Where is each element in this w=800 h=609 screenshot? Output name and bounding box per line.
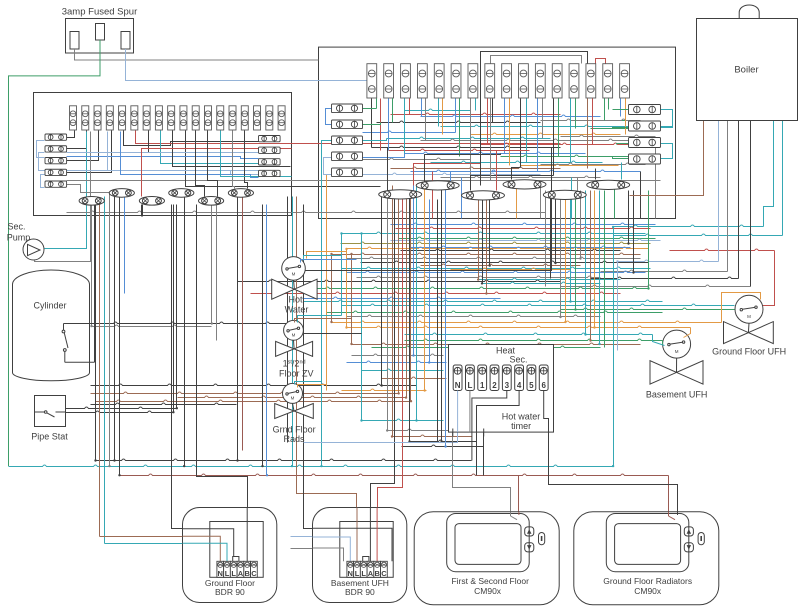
svg-text:B: B (244, 569, 250, 578)
wire mboval6 (497, 151, 530, 191)
hot water timer box (449, 345, 554, 433)
wire mesh row 7 (591, 128, 629, 130)
svg-text:M: M (292, 332, 296, 337)
wire mboval3 (425, 154, 501, 182)
wire mesh col 3 (388, 99, 390, 151)
row y460 black (96, 459, 472, 460)
col x575 green (575, 191, 577, 310)
col x633 black (633, 191, 635, 273)
wire mesh row 4 (599, 120, 629, 122)
svg-text:M: M (675, 349, 679, 354)
col x99 brown (99, 201, 101, 537)
wire timer exit left (453, 433, 517, 520)
svg-text:5: 5 (529, 381, 534, 390)
wire mesh row 5 (377, 121, 541, 122)
wire zv hook brown (295, 319, 352, 323)
col x211 grey (211, 205, 213, 324)
row y305 teal (342, 304, 735, 305)
left junction box (34, 93, 292, 216)
col x570 teal (570, 191, 572, 302)
wire jb18 (67, 157, 259, 159)
row y265 brown (421, 264, 581, 265)
col x485 brown (486, 200, 488, 294)
row y250 black (401, 249, 621, 250)
row y277 black (591, 277, 739, 278)
wire jb26 (233, 131, 235, 189)
svg-text:Hot water: Hot water (502, 412, 541, 422)
col x437 black (437, 200, 439, 443)
svg-text:N: N (218, 569, 223, 578)
wire basement hook teal (653, 335, 665, 346)
wire jb22 (142, 149, 292, 197)
col x216 grey (216, 205, 218, 341)
label Grnd Floor Rads (273, 425, 316, 445)
wire mboval10 (595, 169, 597, 180)
wire mesh col 2 (380, 99, 382, 151)
wire mesh drop 3 (540, 182, 542, 219)
wire mesh row 8 (363, 131, 456, 132)
wire jb13 (67, 185, 110, 193)
wire jb10 (161, 131, 259, 164)
col x648 green (648, 191, 650, 289)
row y400 brown (96, 400, 411, 401)
wire jb24 (208, 131, 218, 197)
col x109 grey (109, 193, 111, 467)
middle box left terminal column (332, 104, 363, 177)
col x481 black (482, 200, 484, 284)
wire mesh drop 0 (432, 172, 434, 219)
wire boiler black2 (738, 121, 740, 279)
col x603 green (604, 191, 606, 348)
wire mesh col 24 (558, 99, 560, 157)
row y312 green (327, 311, 663, 312)
wire jb17 (67, 152, 259, 154)
col x413 blue (413, 186, 415, 356)
wire gf bdr black2 (197, 205, 248, 562)
svg-text:6: 6 (541, 381, 546, 390)
col x266 blue (266, 205, 268, 476)
wire boiler brown (630, 121, 704, 196)
wire mesh row 21 (411, 170, 641, 171)
secondary pump (23, 239, 44, 260)
row y243 olive (341, 242, 651, 243)
wire mesh row 22 (363, 173, 541, 174)
col x409 black (409, 195, 411, 442)
svg-text:BDR 90: BDR 90 (345, 587, 375, 597)
wire jb14 (67, 180, 661, 182)
wire bs bdr lightblue (291, 537, 351, 562)
bs bdr inner wires (313, 508, 393, 562)
first and second floor CM90x box (414, 512, 559, 605)
basement BDR90 terminal strip (347, 557, 387, 579)
row y340 green (405, 339, 663, 340)
col x104 teal (104, 197, 106, 544)
gf bdr inner wires (183, 508, 248, 562)
left box oval terminals (79, 189, 253, 206)
wire mesh row 20 (391, 167, 561, 168)
wire mb red jumper (596, 59, 606, 64)
wire mesh col 31 (620, 99, 622, 117)
svg-text:B: B (374, 569, 380, 578)
svg-text:3amp Fused Spur: 3amp Fused Spur (62, 7, 138, 18)
col x114 black (114, 193, 116, 461)
row y226 teal boiler (614, 225, 764, 226)
heat terminal strip (453, 365, 548, 391)
svg-text:Basement UFH: Basement UFH (646, 390, 708, 400)
wire orange basement (684, 328, 691, 338)
col x331 brown (331, 255, 333, 323)
wire mesh col 12 (459, 99, 461, 157)
col x441 black (441, 186, 443, 442)
wire mesh col 27 (587, 99, 589, 169)
wire mbl6 (326, 109, 332, 125)
col x612 teal (613, 227, 615, 467)
svg-text:1: 1 (480, 381, 485, 390)
wire mbr2 (661, 144, 673, 159)
svg-text:Boiler: Boiler (734, 65, 758, 76)
wire mesh row 23 (441, 176, 601, 177)
cm2 entry wires (669, 512, 678, 520)
wire boiler teal2 (782, 121, 784, 236)
col x628 black (628, 191, 630, 244)
svg-text:2: 2 (492, 381, 497, 390)
wire mesh col 10 (442, 99, 444, 135)
row y293 red (251, 292, 621, 293)
wire mboval5 (471, 176, 554, 191)
wire mboval7 (512, 168, 521, 180)
row y334 teal (405, 333, 653, 334)
wire mesh col 6 (409, 99, 411, 115)
wire mesh drop 5 (614, 182, 616, 219)
wire mesh row 10 (387, 137, 551, 138)
svg-text:Cylinder: Cylinder (33, 301, 66, 311)
row y248 orange (347, 247, 649, 248)
wire mesh row 12 (481, 143, 629, 144)
wire mesh col 4 (392, 99, 394, 123)
first second floor zone valve (276, 320, 313, 356)
wire mesh col 7 (421, 99, 423, 117)
col x93 black (94, 201, 96, 363)
wire basement hook green (662, 341, 664, 345)
wire jb12 (41, 175, 45, 188)
row y277 grey (357, 276, 601, 277)
cylinder stat switch (62, 324, 94, 363)
svg-text:L: L (361, 569, 366, 578)
wire cm2 left (669, 476, 675, 520)
wire mesh col 15 (487, 99, 489, 145)
wire mesh col 8 (425, 99, 427, 141)
wire bs bdr grey (291, 549, 344, 562)
wire mesh col 5 (404, 99, 406, 154)
col x341 teal (341, 234, 343, 316)
col x321 teal (321, 253, 323, 467)
wire jb20 (121, 132, 259, 178)
wire mbl9 (324, 158, 332, 175)
label Heat Sec (496, 346, 528, 365)
col x599 teal (599, 191, 601, 345)
row y370 teal (362, 369, 444, 370)
wire mesh row 16 (501, 155, 629, 156)
col x287 black (287, 197, 289, 443)
col x391 brown (392, 186, 394, 437)
row y385 black (91, 384, 417, 385)
basement UFH valve (650, 330, 703, 384)
wire mesh col 9 (438, 99, 440, 127)
wire mbr4 (613, 128, 629, 129)
wire mesh row 19 (521, 164, 619, 165)
middle box right terminal column (629, 105, 661, 165)
wire mesh col 18 (509, 99, 511, 166)
wire mesh row 17 (363, 158, 471, 159)
col x381 black (381, 195, 383, 386)
row y404 black (91, 403, 237, 404)
wire bs bdr brown (297, 197, 357, 508)
row y262 black (361, 261, 649, 262)
wire mesh row 18 (431, 161, 603, 162)
wire hw hook teal (304, 256, 342, 261)
wire jb8 (136, 131, 561, 144)
svg-text:L: L (467, 381, 472, 390)
col x555 black (555, 191, 557, 263)
label 1st 2nd Floor ZV (279, 359, 314, 379)
wire boiler black (750, 121, 752, 287)
fused spur box (66, 19, 134, 54)
col x326 orange (326, 252, 328, 391)
svg-text:Sec.: Sec. (509, 355, 527, 365)
wire mesh row 2 (391, 113, 561, 114)
col x428 blue (429, 200, 431, 363)
wire timer exit right (483, 433, 485, 476)
col x91 grey (91, 201, 93, 327)
col x565 orange (565, 191, 567, 323)
svg-text:N: N (455, 381, 461, 390)
svg-text:3: 3 (505, 381, 510, 390)
svg-text:C: C (251, 569, 257, 578)
wire mesh col 20 (526, 99, 528, 163)
timer below box wires (472, 432, 477, 475)
wire mesh col 16 (492, 99, 494, 123)
col x291 teal (292, 197, 294, 467)
svg-text:L: L (225, 569, 230, 578)
row y253 brown (332, 253, 641, 254)
svg-text:First & Second Floor: First & Second Floor (451, 576, 529, 586)
wire mboval4 (451, 172, 538, 182)
svg-text:BDR 90: BDR 90 (215, 587, 245, 597)
col x140 black (141, 205, 143, 217)
wire jb21 (173, 131, 291, 167)
wire jb23 (196, 131, 205, 197)
row y465 teal (9, 465, 614, 466)
row y258 grey (347, 257, 641, 258)
wire jb2 (67, 131, 87, 149)
wire jb7 (124, 131, 259, 146)
wire mbl5 (363, 174, 381, 176)
row y279 teal (479, 278, 621, 279)
row y298 blue (303, 297, 501, 298)
label Hot water timer (502, 412, 541, 432)
svg-text:Ground Floor Radiators: Ground Floor Radiators (603, 576, 692, 586)
ground floor rads valve (275, 383, 314, 418)
col x550 black (550, 191, 552, 279)
wire bs bdr red top (378, 195, 403, 562)
col x361 teal (361, 234, 363, 421)
wire mbl4 (363, 154, 405, 158)
row y285 grey (561, 285, 751, 286)
row y234 teal boiler (614, 234, 783, 235)
left box top terminal row (70, 106, 286, 130)
cm1 entry wires (511, 512, 519, 520)
row y240 lightblue (391, 239, 661, 240)
row y441 black (410, 440, 477, 441)
wire rads hook teal (295, 382, 322, 385)
wire mesh row x1 (561, 135, 656, 136)
timer wire 3 inside (472, 391, 507, 433)
wire mesh row 13 (372, 146, 561, 147)
svg-text:A: A (238, 569, 244, 578)
row y268 orange (451, 268, 571, 269)
wire mbl3 (363, 139, 387, 141)
wire timer six (549, 433, 678, 515)
cylinder (13, 270, 90, 381)
row y392 brown (91, 392, 399, 393)
row y224 blue (391, 223, 656, 224)
row y411 black (66, 411, 174, 412)
col x489 black (489, 200, 491, 266)
svg-text:A: A (368, 569, 374, 578)
row y288 green (297, 287, 649, 288)
ground floor BDR90 terminal strip (217, 557, 257, 579)
wire mesh col 29 (604, 99, 606, 121)
row y378 brown (382, 377, 447, 378)
wire zv black out (304, 333, 362, 335)
row y436 brown (393, 435, 472, 436)
svg-text:Hot: Hot (288, 295, 303, 305)
wire gf bdr teal (105, 544, 227, 562)
ground floor UFH valve (724, 295, 774, 343)
wire jb4 (67, 131, 112, 173)
wire jb3 (67, 131, 99, 161)
wire mesh drop 7 (655, 141, 657, 219)
wire boiler grey (727, 121, 729, 272)
wire fused spur green (9, 40, 101, 466)
label First Second Floor CM90x (451, 576, 529, 596)
wire mesh col 17 (504, 99, 506, 154)
wire mboval2 (414, 163, 481, 191)
col x237 black (237, 197, 239, 461)
wire mbl1 (363, 108, 377, 110)
svg-text:N: N (348, 569, 353, 578)
wire mbr3 (613, 109, 629, 111)
middle box oval terminals (379, 180, 630, 200)
col x119 black (119, 193, 121, 476)
row y325 grey (92, 325, 212, 326)
wire mesh row x0 (541, 119, 641, 120)
row y355 grey (352, 354, 444, 355)
wire mesh col 13 (470, 99, 472, 178)
wire mesh row 6 (441, 125, 673, 126)
wire mbr1 (661, 110, 673, 128)
row y390 orange (342, 389, 427, 390)
wire mbl8 (327, 175, 332, 252)
col x241 red (242, 197, 244, 451)
wire mboval1 (387, 148, 389, 191)
wire mesh row 14 (389, 149, 530, 150)
col x585 teal (585, 191, 587, 335)
wire right red down (763, 251, 775, 306)
row y309 green (561, 308, 735, 309)
wire mesh row 3 (421, 115, 601, 116)
row y321 orange (332, 321, 722, 322)
wire mbr6 (613, 157, 629, 159)
row y270 grey (601, 270, 728, 271)
timer wire 4 inside (477, 391, 520, 433)
col x416 teal (416, 186, 418, 421)
wire timer n (304, 391, 458, 443)
wire jb6 (35, 132, 91, 262)
col x386 grey (387, 195, 389, 431)
svg-text:Sec.: Sec. (7, 222, 25, 232)
wire mesh row 1 (405, 109, 471, 110)
wire mb grey loop (491, 56, 582, 181)
basement UFH BDR90 box (313, 508, 407, 603)
col x124 blue (124, 193, 126, 294)
wire mesh row x2 (541, 163, 646, 164)
col x172 black (173, 205, 175, 413)
wire cm1 right (518, 476, 520, 515)
svg-text:1st/2nd: 1st/2nd (283, 359, 306, 369)
svg-text:Grnd Floor: Grnd Floor (273, 425, 316, 435)
middle box top terminal row (367, 64, 630, 98)
wire mesh col 25 (570, 99, 572, 163)
row y362 blue (347, 361, 447, 362)
wire mesh col 14 (475, 99, 477, 111)
wire jb9 (149, 131, 259, 153)
svg-text:CM90x: CM90x (474, 586, 502, 596)
wire orange gf ufh (722, 293, 761, 323)
label Sec Pump (7, 222, 31, 243)
svg-text:Ground Floor UFH: Ground Floor UFH (712, 347, 786, 357)
wire boiler lightblue (718, 121, 720, 262)
label Basement UFH BDR 90 (331, 578, 389, 597)
row y261 lightblue (618, 260, 719, 261)
col x477 brown (478, 200, 480, 280)
wire rads hook orange (298, 385, 327, 388)
wire gf bdr black (172, 205, 234, 562)
col x346 orange (346, 249, 348, 328)
wire jb5 (45, 132, 87, 249)
col x590 brown (590, 191, 592, 341)
wire jb15 (186, 131, 381, 187)
col x183 black (184, 197, 186, 467)
wire mesh col 11 (455, 99, 457, 133)
svg-text:L: L (231, 569, 236, 578)
col x176 black (176, 205, 178, 409)
wire mesh drop 6 (640, 172, 642, 219)
row y282 teal (483, 282, 601, 283)
svg-text:M: M (747, 314, 751, 319)
row y238 green (399, 237, 656, 238)
row y267 teal (342, 267, 651, 268)
svg-text:Pipe Stat: Pipe Stat (31, 432, 68, 442)
wire fused spur grey (75, 49, 319, 60)
svg-text:CM90x: CM90x (634, 586, 662, 596)
row y249 red right (670, 249, 775, 250)
wire boiler teal1 (764, 121, 774, 227)
wire mesh drop 1 (461, 178, 463, 219)
wire mesh col 19 (520, 99, 522, 168)
col x424 orange (424, 186, 426, 391)
row y247 blue (411, 246, 631, 247)
